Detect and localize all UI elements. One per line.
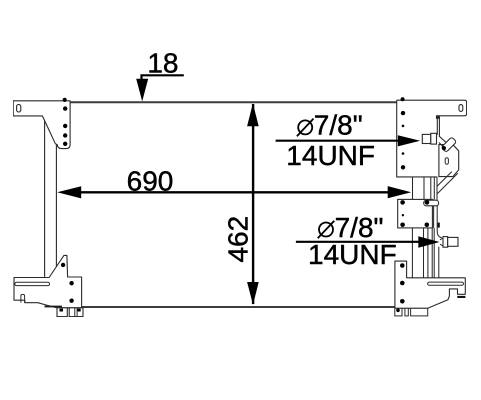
pipe line bbox=[423, 228, 425, 278]
top-right bracket arm with slot bbox=[397, 100, 467, 119]
mid plate tab bbox=[424, 200, 439, 206]
bottom-right mounting bracket bbox=[395, 261, 465, 308]
fitting label 1 diameter symbol bbox=[297, 119, 314, 137]
fitting 1 cap hole bbox=[442, 146, 446, 150]
fitting label 1 leader line bbox=[276, 140, 400, 142]
condenser top edge line bbox=[70, 101, 397, 103]
plate hole bbox=[425, 200, 430, 205]
fitting label 1 arrowhead bbox=[398, 135, 420, 146]
bracket foot wide bbox=[411, 308, 428, 316]
plate hole small bbox=[402, 125, 405, 128]
fitting 1 angled pipe bbox=[439, 136, 447, 148]
svg-text:7/8": 7/8" bbox=[314, 110, 363, 141]
foot hole bbox=[396, 309, 400, 313]
fitting 1 angled cap bbox=[441, 137, 456, 152]
bracket base flange edge bbox=[45, 306, 63, 308]
plate hole bbox=[400, 223, 405, 228]
bracket hole bbox=[63, 133, 67, 137]
pipe line bbox=[423, 177, 425, 200]
svg-text:14UNF: 14UNF bbox=[286, 140, 375, 171]
svg-text:18: 18 bbox=[147, 48, 178, 79]
bracket foot right bbox=[69, 308, 83, 317]
dimension 462 top arrowhead bbox=[247, 103, 259, 126]
bottom-left mounting bracket bbox=[14, 255, 82, 307]
bracket hole bbox=[400, 281, 405, 286]
condenser bottom edge line bbox=[82, 306, 395, 308]
right pentagon bracket plate bbox=[439, 145, 459, 177]
bracket hole bbox=[400, 299, 405, 304]
pipe to fitting 2 curve upper bbox=[437, 232, 442, 238]
pipe line right of mid plate bbox=[433, 199, 435, 228]
top-left mounting bracket bbox=[13, 101, 70, 149]
pipe line bbox=[411, 228, 413, 278]
pipe strip left line bbox=[436, 116, 438, 135]
plate hole bbox=[400, 200, 405, 205]
left side member wire (left line) bbox=[44, 116, 46, 277]
plate hole bbox=[401, 111, 405, 115]
pipe to fitting 2 curve lower bbox=[438, 247, 440, 278]
dimension 462 line bbox=[252, 104, 254, 304]
foot divider bbox=[74, 308, 76, 317]
pipe strip right line bbox=[438, 116, 440, 136]
small plate dot bbox=[402, 214, 404, 216]
plate hole small bbox=[402, 152, 405, 155]
fitting 2 connector bbox=[440, 238, 443, 246]
fitting 2 square body bbox=[448, 237, 458, 246]
fitting 2 nut bbox=[443, 237, 448, 248]
fitting 1 nut bbox=[422, 134, 431, 143]
svg-text:462: 462 bbox=[222, 216, 253, 263]
dimension 690 right arrowhead bbox=[388, 186, 412, 198]
bracket hole bbox=[69, 281, 73, 285]
fitting label 2 diameter symbol bbox=[318, 221, 335, 239]
bracket foot bbox=[405, 308, 408, 316]
bracket hole bbox=[63, 142, 67, 146]
slot in pentagon plate bbox=[445, 158, 448, 164]
foot divider bbox=[76, 308, 78, 317]
pipe line bbox=[436, 177, 438, 200]
bracket foot bbox=[395, 308, 402, 316]
stud clip in bottom-left bracket bbox=[21, 294, 25, 302]
pipe line bbox=[430, 177, 432, 200]
fitting 1 hex body bbox=[431, 133, 437, 144]
pipe line bbox=[412, 177, 414, 200]
dimension 690 line bbox=[78, 191, 390, 193]
left side member wire (right line) bbox=[55, 143, 57, 266]
plate hole bbox=[425, 223, 430, 228]
plate hole bbox=[401, 165, 405, 169]
bracket hole bbox=[63, 106, 67, 110]
bracket hole bbox=[400, 263, 405, 268]
slot hole in top-left bracket bbox=[17, 104, 21, 112]
dimension 462 bottom arrowhead bbox=[247, 282, 259, 305]
pipe line bbox=[427, 228, 429, 278]
bracket hole bbox=[63, 98, 67, 102]
plate hole bbox=[401, 97, 405, 101]
foot pad mark bbox=[77, 309, 80, 312]
dimension 18 leader line bbox=[142, 75, 184, 79]
strip junction dark nub bbox=[436, 116, 439, 119]
clamp bar under bracket end bbox=[457, 296, 465, 298]
tube diagonal from pentagon bbox=[437, 173, 457, 193]
foot pad mark bbox=[60, 309, 64, 312]
bracket hole bbox=[63, 124, 67, 128]
fitting label 2 leader line bbox=[296, 241, 420, 243]
bracket hole bbox=[69, 299, 73, 303]
mid-right plate bbox=[398, 199, 433, 228]
right pipes below mid plate (segment 2) bbox=[412, 228, 441, 278]
pipe line bbox=[433, 177, 435, 200]
bracket foot left bbox=[57, 308, 67, 317]
pipe line bbox=[433, 228, 435, 278]
dimension 18 arrowhead bbox=[136, 79, 148, 102]
slot in bottom-right bracket arm bbox=[428, 282, 464, 285]
dimension 690 left arrowhead bbox=[57, 186, 81, 198]
tube diagonal from pentagon bbox=[437, 172, 452, 187]
svg-text:14UNF: 14UNF bbox=[308, 239, 397, 270]
top-right side plate bbox=[397, 100, 438, 177]
fitting label 2 arrowhead bbox=[418, 236, 439, 248]
dark mark on pipe at plate edge bbox=[438, 223, 440, 228]
bracket hole bbox=[61, 263, 65, 267]
right pipes between plates (segment 1) bbox=[413, 177, 438, 232]
pipe line bbox=[431, 228, 433, 278]
slot hole in top-right arm bbox=[459, 105, 463, 112]
slot in bottom-left bracket arm bbox=[15, 282, 50, 285]
pipe line right of mid plate bbox=[436, 199, 438, 231]
